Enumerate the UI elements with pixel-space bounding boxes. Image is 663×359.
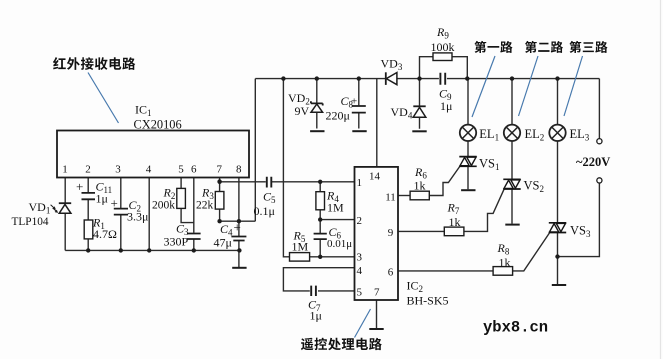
svg-text:9: 9: [388, 227, 394, 239]
svg-text:EL2: EL2: [525, 127, 545, 143]
wire: R6 to VS1 gate: [429, 166, 460, 195]
svg-text:VS2: VS2: [524, 179, 544, 195]
wire: VD2 branch: [316, 79, 318, 129]
faint scan edge artifact: [660, 0, 662, 359]
svg-text:11: 11: [385, 192, 396, 204]
wire: IC1 pin5 lead / R2: [181, 178, 194, 223]
svg-text:EL1: EL1: [479, 127, 499, 143]
callout line: 遥控处理电路: [355, 309, 371, 338]
svg-text:47μ: 47μ: [214, 236, 232, 250]
wire: VD1 to bottom rail: [64, 213, 66, 250]
svg-text:1k: 1k: [499, 256, 511, 270]
label 第一路 (channel 1): [474, 41, 512, 53]
svg-text:+: +: [76, 179, 83, 194]
svg-text:IC2: IC2: [407, 279, 424, 295]
svg-text:4.7Ω: 4.7Ω: [93, 227, 117, 241]
ground (VD4): [412, 130, 426, 132]
resistor R1: [84, 220, 93, 239]
svg-text:1: 1: [357, 177, 363, 189]
wire: IC2 pin3 line with R5: [310, 256, 355, 258]
wire: C6 leads: [319, 220, 321, 257]
svg-text:1μ: 1μ: [96, 192, 108, 206]
wire: IC1 pin8 lead: [238, 178, 240, 222]
wire: C7 to IC2 pin5: [318, 290, 355, 292]
capacitor C2 (polarized): [114, 209, 128, 215]
wire: R5 drop from rail: [283, 79, 289, 257]
svg-text:6: 6: [388, 266, 394, 278]
svg-text:0.1μ: 0.1μ: [254, 204, 275, 218]
capacitor C7 (series): [311, 286, 316, 296]
svg-text:VD4: VD4: [391, 105, 413, 121]
svg-text:VS3: VS3: [570, 224, 591, 240]
svg-text:220μ: 220μ: [326, 109, 350, 123]
wire: IC2 pin14 to rail: [376, 79, 378, 167]
svg-text:1μ: 1μ: [440, 99, 452, 113]
node: 220V terminal bottom: [597, 178, 602, 183]
svg-text:C5: C5: [263, 190, 276, 206]
wire: R4 leads: [319, 182, 321, 220]
wire: IC1 pin1 lead to VD1: [64, 178, 66, 204]
diode VD1 TLP104 photodiode: [59, 202, 71, 204]
svg-text:~220V: ~220V: [576, 155, 610, 169]
svg-text:1μ: 1μ: [310, 309, 322, 323]
resistor R5: [290, 253, 310, 262]
wire: 220V live drop to terminal: [598, 79, 600, 139]
ground (VS2): [505, 224, 519, 226]
capacitor C3: [187, 234, 201, 240]
svg-text:6: 6: [191, 164, 197, 176]
wire: IC1 pin2 lead / C11 / R1 chain: [87, 178, 89, 251]
wire: R8 to VS3 gate: [513, 233, 550, 271]
svg-text:CX20106: CX20106: [134, 118, 182, 132]
label 遥控处理电路 (remote processing circuit): [301, 338, 382, 351]
thyristor(triac) VS3: [549, 223, 566, 233]
svg-text:8: 8: [236, 164, 242, 176]
svg-text:330P: 330P: [164, 235, 189, 249]
svg-text:+: +: [351, 96, 357, 108]
callout line: 第三路: [564, 56, 583, 116]
svg-text:5: 5: [178, 164, 184, 176]
ground (VS3): [552, 284, 566, 286]
wire: VD4 branch: [419, 79, 421, 129]
svg-text:0.01μ: 0.01μ: [327, 238, 352, 250]
ground (C8): [352, 130, 366, 132]
resistor R2: [177, 188, 186, 208]
thyristor(triac) VS2: [503, 179, 520, 189]
wire: R3 leads: [219, 182, 221, 221]
svg-text:VD1: VD1: [29, 200, 51, 216]
wire: IC1 Vcc node line (pin7 pullup bottom / pin8 / C4): [220, 220, 256, 222]
wire: IC1 pin7 output line to C5 and IC2 pin1: [220, 178, 355, 182]
svg-text:2: 2: [357, 215, 363, 227]
svg-text:9V: 9V: [295, 104, 310, 118]
wire: IC2 pin11 line to R6: [398, 195, 410, 197]
wire: IC2 pin4 loop to C7: [283, 268, 354, 291]
wire: C4 leads and ground stem: [238, 221, 240, 267]
svg-text:+: +: [111, 196, 118, 211]
svg-text:1M: 1M: [292, 240, 309, 254]
ground (C4): [232, 267, 246, 269]
callout line: 红外接收电路: [88, 73, 119, 124]
capacitor C9 (series): [440, 73, 445, 85]
wire: EL1 column: [467, 79, 469, 190]
svg-text:ybx8.cn: ybx8.cn: [483, 319, 548, 337]
svg-text:2: 2: [85, 164, 91, 176]
callout line: 第二路: [519, 56, 539, 116]
thyristor(triac) VS1: [459, 157, 476, 167]
wire: IC1 pin3 lead / C2 chain: [120, 178, 122, 251]
wire: EL2 column: [511, 79, 513, 224]
diode VD4: [413, 105, 425, 107]
label 第二路 (channel 2): [525, 41, 563, 53]
label 红外接收电路 (infrared receiver circuit): [53, 57, 135, 70]
svg-text:VS1: VS1: [479, 157, 499, 173]
zener diode VD2 9V: [311, 101, 323, 105]
op-amp U1: IC1 CX20106 box: [57, 131, 249, 178]
svg-text:BH-SK5: BH-SK5: [407, 294, 449, 308]
svg-text:R7: R7: [447, 201, 460, 217]
svg-text:14: 14: [369, 171, 381, 183]
resistor R6: [410, 191, 429, 200]
callout line: 第一路: [472, 56, 495, 117]
op-amp U2: IC2 BH-SK5 box: [355, 167, 399, 300]
lamp EL3: [549, 125, 565, 141]
svg-text:5: 5: [357, 287, 363, 299]
svg-text:3: 3: [357, 252, 363, 264]
svg-text:VD3: VD3: [381, 57, 403, 73]
wire: IC1 ground bottom rail: [65, 249, 239, 251]
svg-text:1M: 1M: [327, 201, 344, 215]
wire: Vcc drop from rail to IC1 pin8 node: [254, 79, 256, 222]
wire: IC2 pin6 line to R8: [398, 270, 493, 272]
svg-text:1: 1: [62, 164, 68, 176]
wire: IC2 pin9 line to R7: [398, 230, 444, 232]
node: 220V terminal top: [597, 139, 602, 144]
svg-text:IC1: IC1: [135, 103, 152, 119]
wire: C8 branch: [358, 79, 360, 129]
capacitor C11 (polarized): [82, 193, 96, 199]
wire: R9 bypass loop: [420, 57, 468, 79]
svg-text:1k: 1k: [449, 215, 461, 229]
svg-text:R9: R9: [436, 25, 449, 41]
svg-text:3.3μ: 3.3μ: [127, 210, 148, 224]
svg-text:R8: R8: [497, 241, 510, 257]
svg-text:EL3: EL3: [570, 127, 590, 143]
svg-text:TLP104: TLP104: [12, 216, 49, 228]
svg-text:22k: 22k: [196, 200, 214, 212]
capacitor C4 (polarized): [231, 237, 246, 241]
lamp EL2: [504, 125, 520, 141]
svg-text:7: 7: [217, 164, 223, 176]
ground (IC2 pin7): [369, 328, 383, 330]
wire: IC1 pin6 lead / C3 chain: [193, 178, 195, 251]
resistor R9: [433, 53, 452, 61]
lamp EL1: [460, 125, 476, 141]
svg-text:4: 4: [357, 265, 363, 277]
label 第三路 (channel 3): [569, 41, 607, 53]
resistor R3: [215, 192, 224, 210]
wire: 220V neutral return to VS3 node: [558, 183, 600, 257]
resistor R7: [444, 227, 464, 236]
wire: IC2 pin7 ground stem: [376, 300, 378, 328]
wire: R7 to VS2 gate: [464, 189, 504, 231]
resistor R8: [493, 267, 512, 276]
svg-text:100k: 100k: [431, 40, 455, 54]
svg-text:4: 4: [146, 164, 152, 176]
svg-text:+: +: [234, 220, 241, 235]
wire: IC1 pin4 lead to ground rail: [148, 178, 150, 251]
svg-text:200k: 200k: [152, 200, 175, 212]
ground (VS1): [461, 189, 475, 191]
junction dots: [281, 76, 285, 80]
wire: EL3 column: [557, 79, 559, 284]
diode VD3: [385, 72, 387, 85]
capacitor C6: [314, 234, 327, 240]
capacitor C5 (series): [267, 177, 272, 188]
svg-text:1k: 1k: [414, 179, 426, 193]
svg-text:3: 3: [115, 164, 121, 176]
capacitor C8 (polarized): [352, 106, 366, 113]
svg-text:7: 7: [374, 287, 380, 299]
ground (VD2): [310, 130, 324, 132]
wire: IC2 pin2 line: [320, 219, 354, 221]
wire: top supply rail: [255, 78, 599, 80]
resistor R4: [316, 192, 325, 210]
